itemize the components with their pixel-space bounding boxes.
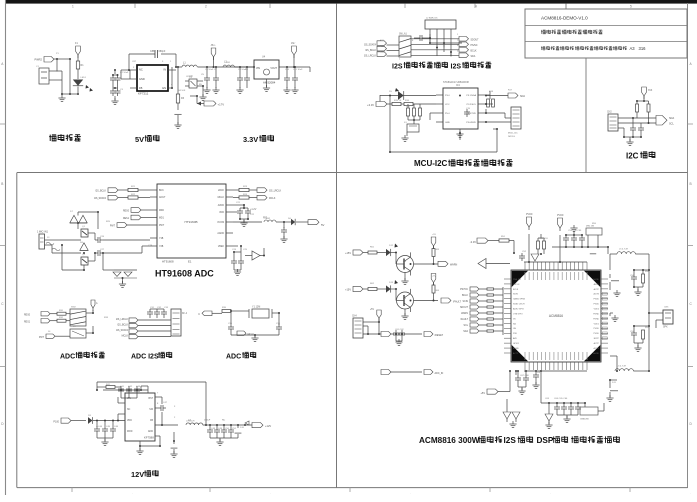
svg-text:+17V: +17V: [218, 103, 225, 107]
svg-text:+5V: +5V: [432, 276, 436, 278]
svg-text:ADC I2S: ADC I2S: [131, 354, 159, 361]
svg-text:J2 EAR-I2S: J2 EAR-I2S: [426, 17, 438, 20]
svg-text:PS/NC: PS/NC: [471, 45, 478, 47]
svg-text:C6 10uF: C6 10uF: [205, 69, 214, 71]
svg-text:VCC: VCC: [445, 104, 450, 106]
svg-text:I2S_SDATA: I2S_SDATA: [116, 329, 129, 332]
svg-text:GND: GND: [139, 77, 145, 81]
svg-text:+15V: +15V: [345, 289, 351, 292]
svg-text:OTB GPIO: OTB GPIO: [513, 313, 523, 315]
svg-text:RES0: RES0: [123, 211, 130, 213]
svg-text:·: ·: [270, 491, 271, 495]
svg-text:R15 1K: R15 1K: [394, 100, 402, 102]
svg-text:HT9160B: HT9160B: [184, 220, 197, 224]
svg-text:Y2B: Y2B: [159, 246, 164, 248]
svg-text:AVD: AVD: [513, 337, 518, 340]
svg-text:AGND: AGND: [593, 278, 599, 281]
svg-text:MCLK: MCLK: [218, 197, 225, 199]
svg-text:HT91608 ADC: HT91608 ADC: [155, 269, 214, 279]
svg-text:680pF: 680pF: [159, 50, 166, 53]
svg-text:MOD: MOD: [127, 431, 133, 433]
svg-text:5: 5: [630, 5, 632, 9]
svg-text:ACM8816-DEMO-V1.0: ACM8816-DEMO-V1.0: [541, 16, 588, 21]
svg-text:1: 1: [72, 5, 74, 9]
svg-text:SW_A1: SW_A1: [399, 33, 408, 36]
svg-text:100uF: 100uF: [204, 420, 211, 422]
svg-text:+1.2V: +1.2V: [250, 208, 257, 211]
svg-text:3.3V: 3.3V: [243, 135, 258, 144]
svg-text:C11 10uF: C11 10uF: [293, 69, 303, 71]
svg-text:MD0: MD0: [159, 210, 165, 212]
svg-text:I2S_BCLK: I2S_BCLK: [365, 50, 376, 52]
svg-text:PVD: PVD: [513, 333, 518, 335]
svg-text:SDA: SDA: [471, 55, 476, 58]
svg-text:ADC: ADC: [60, 354, 75, 361]
svg-text:PVDD: PVDD: [557, 215, 564, 217]
svg-text:I2S_LRCLK: I2S_LRCLK: [269, 191, 282, 193]
svg-text:BSTP: BSTP: [594, 338, 600, 340]
svg-text:+15V: +15V: [345, 252, 351, 255]
svg-text:/FAULT: /FAULT: [460, 318, 468, 321]
svg-text:KF7588: KF7588: [144, 436, 154, 440]
svg-text:·: ·: [690, 491, 691, 495]
svg-text:ACTP: ACTP: [513, 352, 519, 355]
svg-text:FB: FB: [139, 86, 143, 90]
svg-text:MD1: MD1: [159, 218, 165, 220]
svg-text:CN2: CN2: [607, 112, 612, 114]
svg-text:PVDD: PVDD: [593, 299, 599, 301]
svg-text:RES1: RES1: [123, 218, 130, 220]
svg-text:Y1 12M: Y1 12M: [252, 306, 260, 309]
svg-text:2R0 1W: 2R0 1W: [586, 226, 595, 228]
svg-text:P3.4: P3.4: [445, 95, 450, 97]
svg-text:SDA: SDA: [520, 95, 525, 98]
svg-text:GND: GND: [148, 431, 153, 433]
svg-text:2: 2: [205, 5, 207, 9]
svg-text:P100: P100: [53, 421, 59, 424]
svg-text:·: ·: [550, 491, 551, 495]
svg-text:PGND: PGND: [593, 313, 599, 315]
svg-text:WARN: WARN: [461, 312, 468, 315]
svg-text:ADC: ADC: [226, 354, 241, 361]
svg-text:VOUT: VOUT: [270, 67, 277, 70]
svg-text:I2S: I2S: [504, 436, 517, 445]
svg-text:EN: EN: [162, 86, 166, 90]
svg-text:GAIN1 SPKN: GAIN1 SPKN: [513, 298, 526, 301]
svg-text:LRCLK: LRCLK: [513, 284, 520, 286]
svg-text:NC: NC: [127, 409, 131, 411]
svg-text:I2S_LRCLK: I2S_LRCLK: [116, 319, 129, 321]
svg-text:ACM8816 300W: ACM8816 300W: [419, 436, 480, 445]
svg-text:+5V: +5V: [370, 309, 375, 311]
svg-text:PWT: PWT: [39, 337, 45, 339]
svg-text:BCLK: BCLK: [462, 295, 468, 297]
svg-text:P5.4: P5.4: [445, 113, 450, 115]
svg-text:C53 C54 C55: C53 C54 C55: [568, 230, 582, 232]
svg-text:ISP-DL: ISP-DL: [508, 136, 516, 138]
svg-text:I2S_SDATA: I2S_SDATA: [94, 197, 107, 200]
svg-text:SW2: SW2: [71, 307, 77, 309]
svg-text:STC8G1K17-20B-DFN8: STC8G1K17-20B-DFN8: [443, 81, 469, 84]
svg-text:I2S_LRCLK: I2S_LRCLK: [364, 56, 377, 58]
svg-text:I2S_SDATA: I2S_SDATA: [364, 44, 377, 47]
svg-text:I2S_BCLK: I2S_BCLK: [117, 325, 128, 327]
svg-text:PVDD: PVDD: [593, 333, 599, 335]
svg-text:PBA_IN1: PBA_IN1: [513, 278, 522, 281]
svg-text:FB: FB: [150, 420, 153, 422]
svg-text:B: B: [690, 182, 692, 186]
svg-text:ACTP: ACTP: [594, 342, 600, 345]
svg-text:PWT: PWT: [110, 226, 116, 228]
svg-text:VDD1: VDD1: [594, 323, 600, 325]
svg-text:WARN: WARN: [450, 264, 457, 267]
svg-text:R4 10K: R4 10K: [178, 90, 186, 92]
svg-text:DSP: DSP: [537, 436, 554, 445]
svg-text:3V3: 3V3: [648, 89, 653, 92]
svg-text:I2C: I2C: [626, 152, 639, 161]
svg-text:PVDD: PVDD: [593, 328, 599, 330]
svg-text:·: ·: [410, 491, 411, 495]
svg-text:MCLK: MCLK: [122, 336, 129, 338]
svg-text:+5V: +5V: [432, 234, 436, 236]
svg-text:E1: E1: [188, 260, 192, 264]
svg-text:RES1: RES1: [24, 322, 31, 324]
svg-text:I2S: I2S: [392, 64, 403, 71]
svg-text:P3.1/SDA: P3.1/SDA: [466, 94, 476, 97]
svg-text:+3.3V: +3.3V: [367, 103, 374, 107]
svg-text:R52 R53: R52 R53: [539, 238, 548, 240]
svg-text:·: ·: [132, 491, 133, 495]
svg-text:P3.0/RXD: P3.0/RXD: [466, 122, 476, 124]
svg-text:PGND: PGND: [593, 318, 599, 320]
svg-text:SCL: SCL: [669, 123, 674, 126]
svg-text:SDOUT: SDOUT: [471, 40, 480, 42]
svg-text:VREF: VREF: [218, 246, 225, 248]
svg-text:GND: GND: [445, 122, 450, 124]
svg-text:1 MIC-IN1: 1 MIC-IN1: [37, 231, 49, 234]
svg-text:HT91608: HT91608: [162, 260, 174, 264]
svg-text:B: B: [1, 182, 3, 186]
svg-text:C61 C62: C61 C62: [395, 329, 404, 331]
svg-text:SCIN: SCIN: [463, 301, 469, 303]
svg-text:/FAULT: /FAULT: [453, 301, 461, 304]
svg-text:ACM8816: ACM8816: [549, 314, 563, 318]
svg-text:5V: 5V: [135, 135, 144, 144]
svg-text:BST: BST: [149, 398, 154, 400]
svg-text:MCLK: MCLK: [248, 334, 255, 336]
svg-text:AOUT: AOUT: [159, 196, 166, 199]
svg-text:+5V: +5V: [480, 392, 485, 395]
svg-text:MCU-I2C: MCU-I2C: [414, 159, 448, 168]
svg-text:BCLK: BCLK: [471, 51, 477, 53]
svg-text:SPK: SPK: [663, 327, 668, 329]
svg-text:IN: IN: [163, 68, 166, 72]
svg-text:L3 10uH: L3 10uH: [186, 421, 195, 423]
svg-text:4: 4: [475, 5, 477, 9]
svg-text:AGND: AGND: [217, 232, 224, 235]
svg-text:VDD: VDD: [127, 420, 132, 422]
svg-text:12V: 12V: [131, 470, 144, 479]
svg-text:VIN: VIN: [256, 67, 260, 70]
svg-text:10K: 10K: [406, 106, 410, 108]
svg-text:VCOM: VCOM: [217, 222, 224, 224]
svg-text:BCK: BCK: [159, 190, 164, 192]
svg-text:CN4: CN4: [352, 316, 357, 318]
svg-text:MCLK: MCLK: [269, 198, 276, 200]
svg-text:SDA: SDA: [669, 117, 674, 120]
svg-text:C2 10uF: C2 10uF: [120, 72, 129, 74]
svg-text:Y1B: Y1B: [159, 238, 164, 240]
svg-text:LRCK: LRCK: [218, 190, 225, 192]
svg-text:SCL: SCL: [464, 325, 469, 327]
svg-text:PWR2: PWR2: [35, 58, 43, 62]
svg-text:MCU_I2C: MCU_I2C: [508, 133, 518, 135]
svg-text:GPIO1: GPIO1: [513, 343, 520, 345]
svg-text:GNB-5W: GNB-5W: [580, 419, 590, 421]
svg-text:-3.3V: -3.3V: [470, 240, 476, 244]
svg-text:NC: NC: [139, 68, 143, 72]
svg-text:KF7211: KF7211: [138, 92, 149, 96]
svg-text:C: C: [198, 313, 200, 316]
svg-text:VDD: VDD: [219, 212, 224, 214]
svg-text:C67 C68: C67 C68: [520, 375, 529, 377]
svg-text:C64 C65 C66: C64 C65 C66: [554, 398, 568, 400]
svg-text:+12V: +12V: [265, 424, 271, 428]
svg-text:AGND: AGND: [513, 347, 519, 350]
svg-text:ACTN: ACTN: [594, 347, 600, 350]
svg-text:316: 316: [639, 46, 647, 51]
svg-text:CN5: CN5: [664, 307, 669, 309]
svg-text:SDOUT: SDOUT: [460, 307, 469, 309]
svg-text:PSYNC: PSYNC: [460, 289, 468, 291]
svg-text:C88: C88: [150, 50, 155, 53]
svg-text:ACTN: ACTN: [594, 293, 600, 296]
svg-text:L6 4.7uH: L6 4.7uH: [617, 366, 626, 368]
svg-text:PWT: PWT: [159, 225, 165, 227]
svg-text:AVDD: AVDD: [594, 283, 600, 286]
svg-text:AVDD: AVDD: [218, 204, 225, 207]
svg-text:KF-4: KF-4: [182, 313, 188, 315]
svg-text:SUB1 CECH: SUB1 CECH: [513, 304, 525, 306]
svg-text:NC: NC: [222, 420, 226, 422]
svg-text:AGND: AGND: [593, 352, 599, 355]
svg-text:AMS2084: AMS2084: [263, 81, 276, 85]
svg-text:BCLK: BCLK: [513, 289, 519, 291]
svg-text:ACTP: ACTP: [594, 288, 600, 291]
svg-text:ADR2 GPIO: ADR2 GPIO: [513, 308, 524, 311]
svg-text:SDA: SDA: [463, 330, 468, 333]
svg-text:SDIN: SDIN: [513, 294, 518, 296]
svg-text:LED1: LED1: [81, 77, 87, 79]
svg-text:RES0: RES0: [24, 315, 31, 317]
svg-text:PVDD: PVDD: [593, 304, 599, 306]
svg-text:L5 4.7uH: L5 4.7uH: [619, 249, 628, 251]
svg-text:5V: 5V: [321, 223, 325, 227]
svg-text:ADC_IN: ADC_IN: [435, 372, 444, 375]
svg-text:U2 817: U2 817: [186, 76, 194, 78]
svg-text:PVDD: PVDD: [526, 214, 533, 216]
svg-text:P3.2/SCL: P3.2/SCL: [467, 104, 477, 106]
svg-text:/RESET: /RESET: [435, 334, 444, 337]
svg-text:VDD2: VDD2: [594, 309, 600, 311]
svg-text:A3: A3: [630, 46, 636, 51]
svg-text:I2S: I2S: [451, 64, 462, 71]
svg-text:I2S_BCLK: I2S_BCLK: [95, 191, 106, 193]
